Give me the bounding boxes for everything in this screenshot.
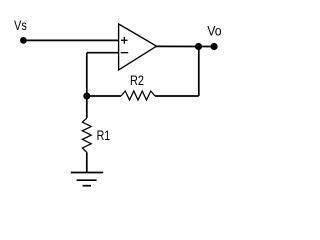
junction feedback node — [83, 93, 90, 100]
ground — [71, 173, 103, 186]
node Vo (output terminal dot) — [211, 43, 218, 50]
node Vs (input terminal dot) — [20, 37, 27, 44]
wire feedback node down to R1 top lead — [86, 96, 88, 118]
wire output riser vertical — [198, 47, 200, 97]
svg-text:R2: R2 — [130, 72, 144, 88]
wire feedback node to R2 left lead — [87, 95, 121, 97]
svg-text:Vs: Vs — [14, 17, 27, 33]
svg-text:Vo: Vo — [207, 23, 221, 39]
junction output node — [195, 43, 202, 50]
wire op-amp output to Vo — [155, 45, 214, 47]
op-amp U1 triangle — [119, 24, 157, 70]
resistor R1 zigzag — [82, 118, 91, 152]
wire Vs to op-amp non-inverting input — [23, 39, 118, 41]
op-amp plus input marking — [121, 37, 128, 44]
wire inverting input horizontal — [87, 52, 119, 54]
svg-text:R1: R1 — [97, 127, 111, 143]
op-amp minus input marking — [121, 52, 129, 54]
wire R1 bottom lead to ground — [86, 152, 88, 172]
resistor R2 zigzag — [121, 91, 155, 100]
wire inverting input down to feedback node — [86, 53, 88, 96]
wire R2 right lead to output riser — [155, 95, 199, 97]
